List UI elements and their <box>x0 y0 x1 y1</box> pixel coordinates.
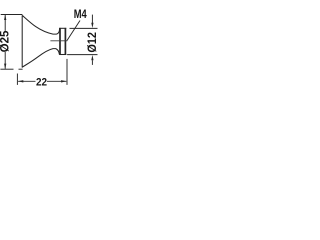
dimension 22 (bottom, overall depth) <box>17 59 67 85</box>
base cylinder (threaded stem end), thick side edges <box>59 28 66 55</box>
svg-text:Ø25: Ø25 <box>0 30 11 52</box>
M4 leader line <box>67 21 80 41</box>
knob body outline (side view, face + trumpet neck) <box>22 15 59 67</box>
svg-text:Ø12: Ø12 <box>85 32 98 53</box>
svg-text:M4: M4 <box>74 7 87 21</box>
dimension D12 (right, stem diameter) <box>67 15 97 65</box>
centerline (axis) through neck and base <box>50 40 67 42</box>
dimension D25 (left, knob face diameter) <box>0 15 22 70</box>
svg-text:22: 22 <box>36 76 47 88</box>
